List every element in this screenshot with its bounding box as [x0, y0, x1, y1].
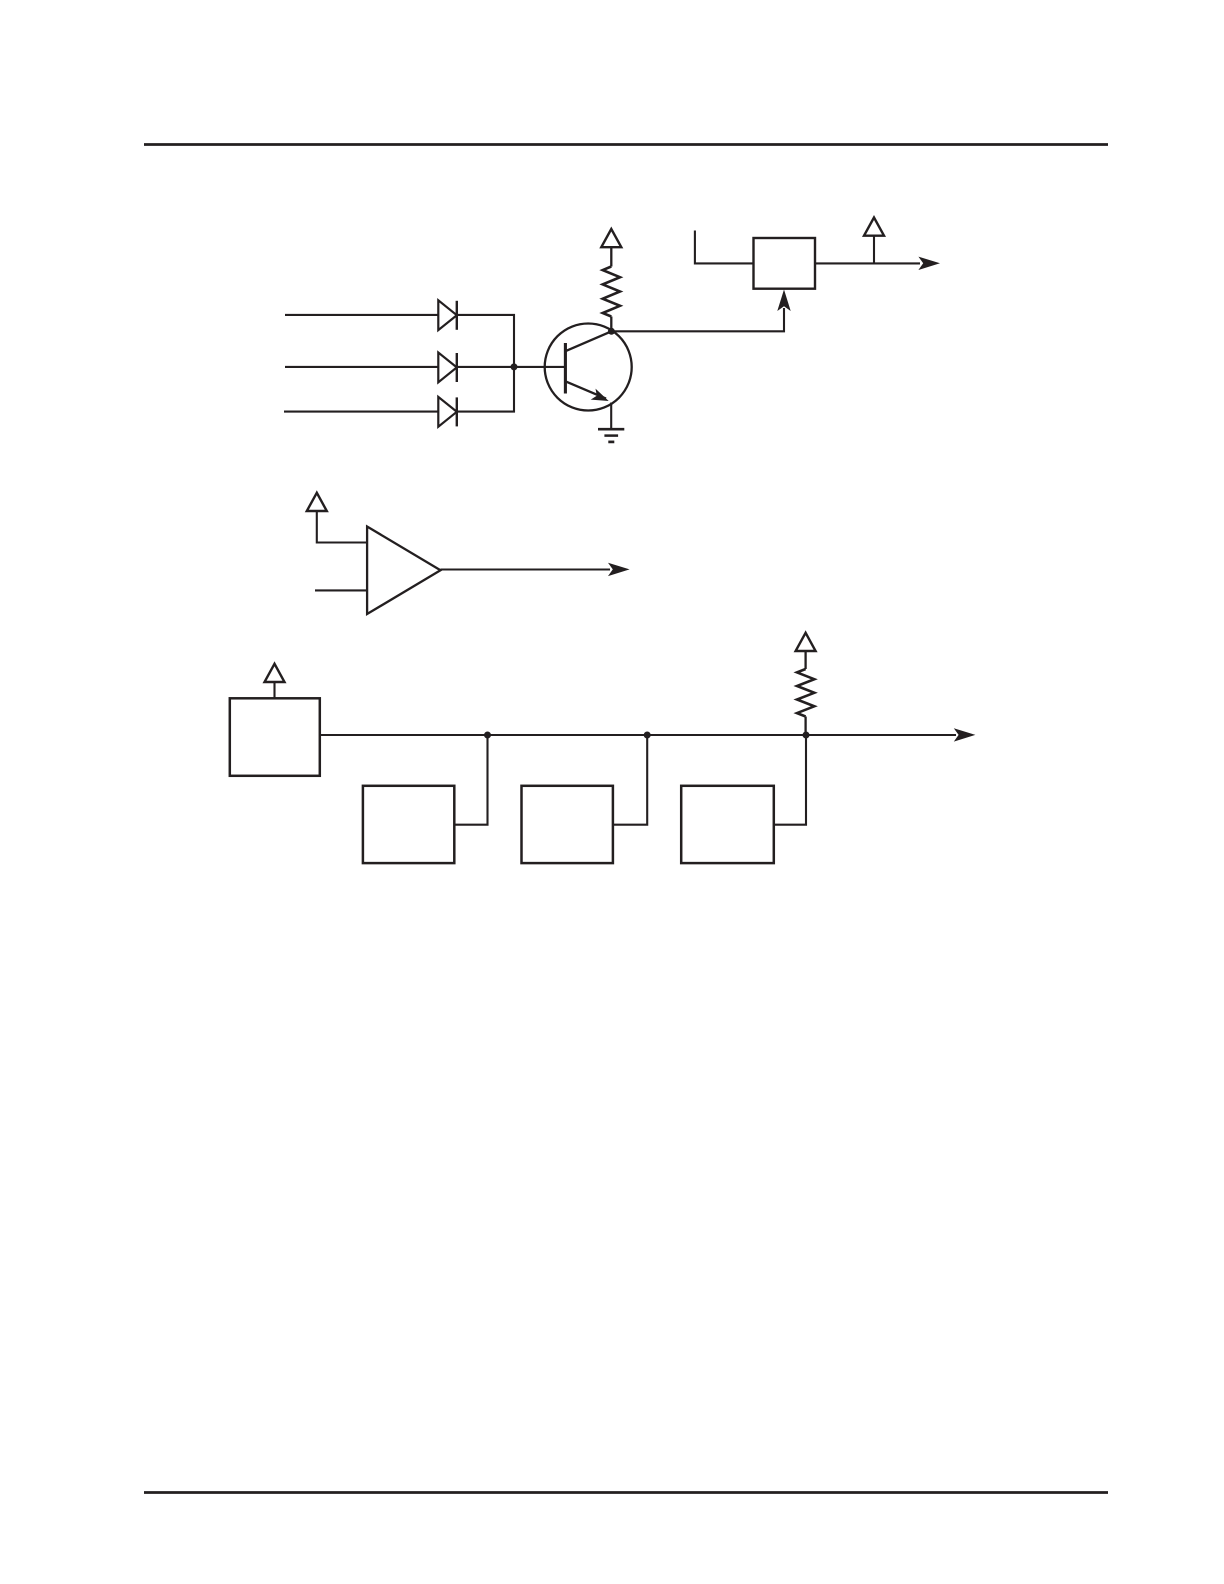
power arrow VCC3 (amplifier supply): [307, 493, 327, 511]
junction node A (diode common point): [511, 363, 518, 370]
wire buffer U1 left input stub: [695, 231, 754, 264]
output arrowhead 1: [918, 257, 940, 270]
transistor Q1 (NPN): [545, 324, 632, 411]
wire D3 cathode to common node: [457, 368, 514, 412]
wire node C to block U4: [454, 735, 487, 825]
wire emitter to ground: [610, 403, 612, 430]
wire amplifier input 2: [315, 589, 368, 591]
resistor R2 (bus pull-up): [797, 651, 814, 736]
wire input 1 (top diode anode line): [285, 314, 439, 316]
junction node D: [644, 732, 651, 739]
junction node B (collector node): [608, 328, 615, 335]
output arrowhead 3: [954, 728, 976, 741]
block U6: [681, 786, 774, 863]
page top rule: [144, 143, 1108, 146]
wire node D to block U5: [613, 735, 647, 825]
wire input 2 (middle diode anode line): [285, 366, 439, 368]
wire buffer output: [815, 262, 920, 264]
power arrow VCC4 (above oscillator box): [265, 664, 285, 682]
op-amp U2 (amplifier triangle): [367, 527, 440, 615]
block U4: [363, 786, 454, 863]
diode D1: [438, 300, 457, 330]
ground: [598, 429, 624, 442]
junction node C: [484, 732, 491, 739]
oscillator U3 (left box): [230, 698, 320, 776]
wire amplifier output: [441, 568, 611, 570]
page bottom rule: [144, 1491, 1108, 1494]
power arrow VCC1 (above R1): [601, 229, 621, 247]
buffer U1 (box): [754, 238, 816, 289]
diode D3: [438, 397, 457, 427]
wire node E to block U6: [774, 735, 806, 825]
block U5: [522, 786, 613, 863]
wire main bus line: [320, 734, 956, 736]
arrowhead into buffer U1: [777, 290, 790, 312]
wire VCC4 stub: [273, 682, 275, 699]
power arrow VCC2 (on output line): [864, 218, 884, 236]
wire D2 cathode to common node: [457, 366, 514, 368]
wire node A to transistor base: [514, 366, 566, 368]
wire collector node to buffer input arrow: [611, 308, 784, 331]
wire VCC3 to amplifier input 1: [317, 511, 368, 543]
wire input 3 (bottom diode anode line): [284, 411, 439, 413]
output arrowhead 2: [608, 563, 630, 576]
wire VCC2 stub: [873, 236, 875, 263]
junction node E: [803, 732, 810, 739]
wire D1 cathode to common node: [457, 315, 514, 366]
power arrow VCC5 (above R2): [796, 633, 816, 651]
resistor R1 (collector pull-up): [603, 247, 620, 332]
diode D2: [438, 353, 457, 383]
